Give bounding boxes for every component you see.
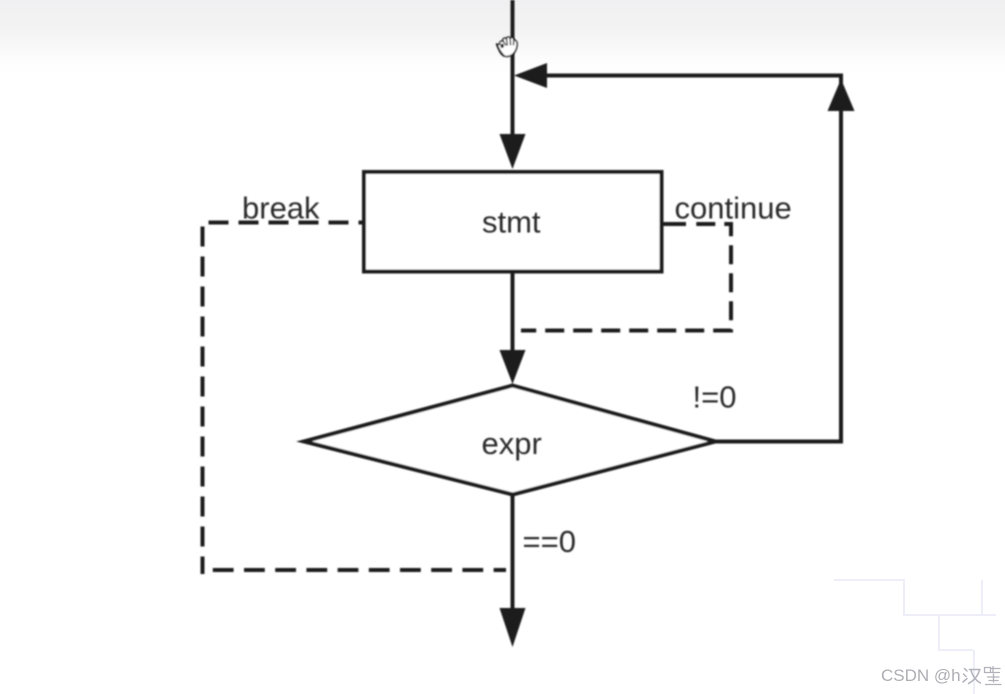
- svg-text:expr: expr: [482, 426, 542, 461]
- svg-text:break: break: [242, 190, 320, 225]
- svg-text:!=0: !=0: [693, 380, 737, 415]
- svg-text:CSDN @h: CSDN @h: [881, 666, 961, 685]
- svg-text:stmt: stmt: [482, 205, 541, 240]
- svg-text:==0: ==0: [523, 524, 576, 559]
- svg-text:continue: continue: [675, 191, 792, 226]
